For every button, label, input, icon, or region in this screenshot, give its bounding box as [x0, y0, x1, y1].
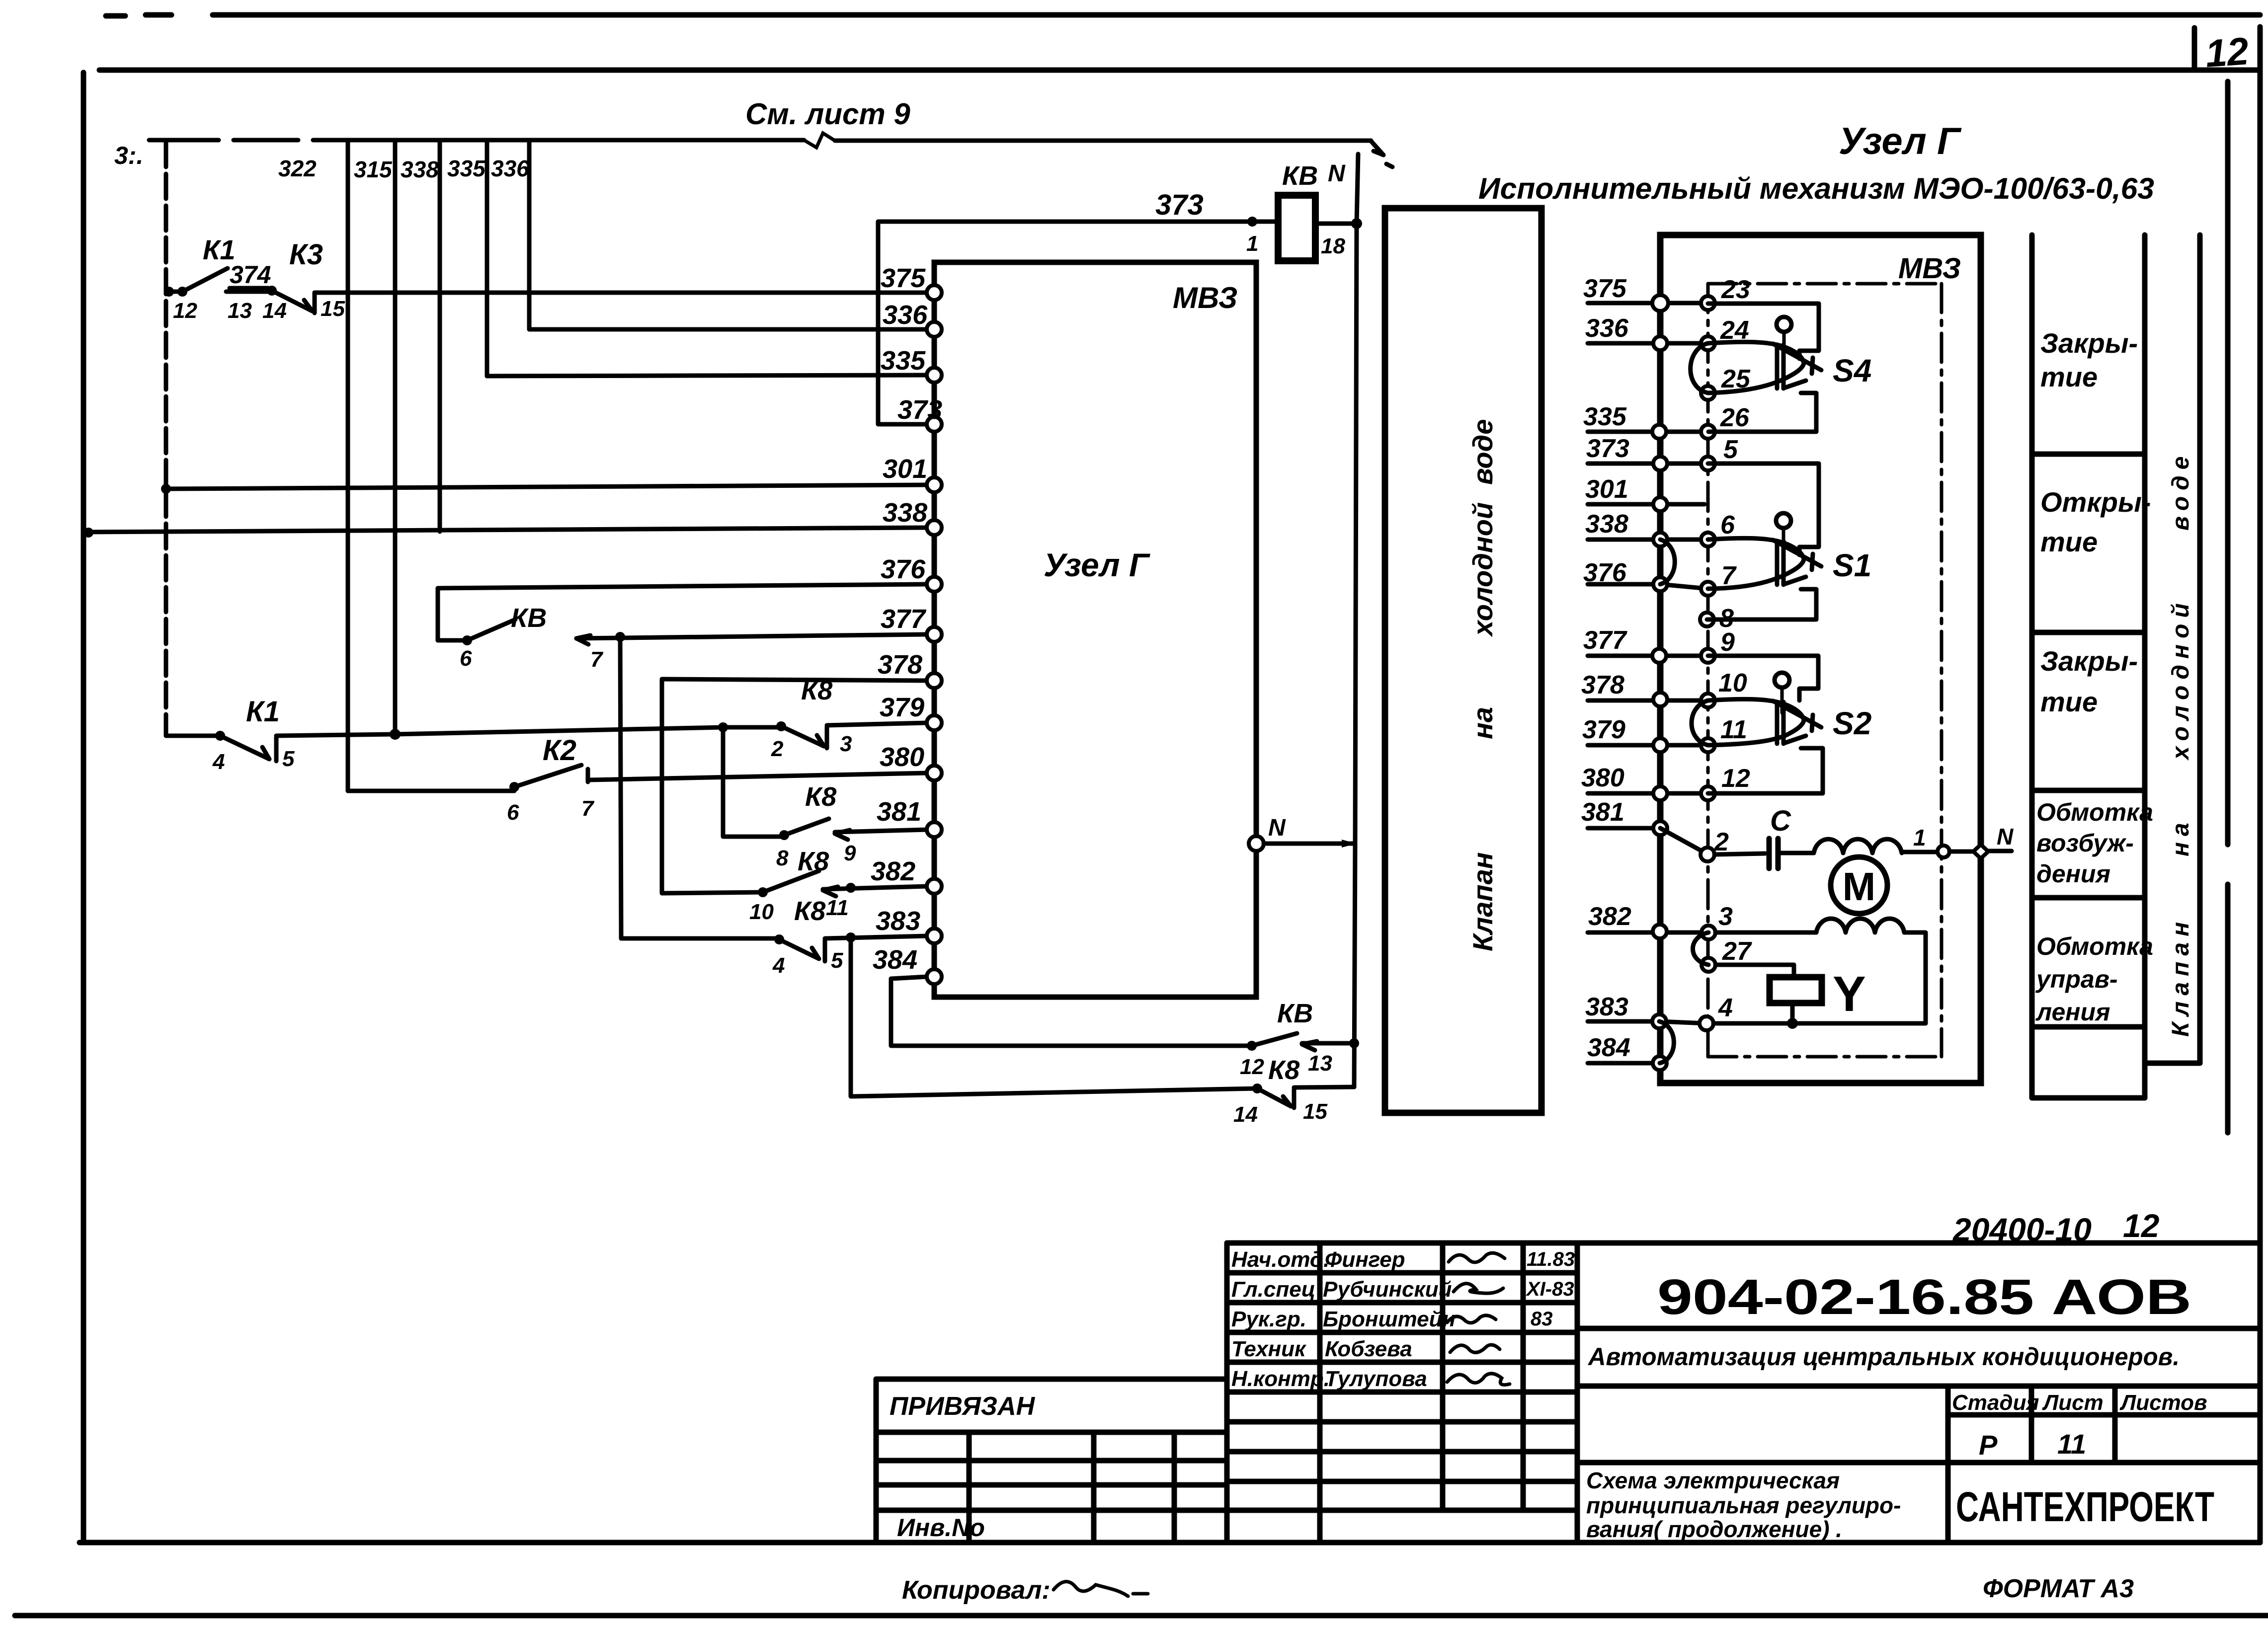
svg-text:338: 338: [401, 156, 439, 182]
box Uzel G inner: [934, 262, 1256, 997]
row 384: [1588, 1061, 1660, 1066]
arrow 9 side: [835, 830, 850, 840]
junction 13-N: [1349, 1038, 1359, 1048]
svg-text:на: на: [2168, 817, 2194, 856]
rotated column right edge: [2145, 235, 2200, 1063]
jumper 338-376 bulge: [1660, 540, 1675, 584]
svg-text:тие: тие: [2040, 526, 2098, 557]
svg-text:S2: S2: [1833, 705, 1871, 741]
terminal 380: [927, 766, 942, 780]
svg-text:15: 15: [1303, 1099, 1327, 1124]
svg-text:9: 9: [844, 841, 856, 865]
boundary line sheet 9: [149, 140, 1371, 141]
frame top main line: [99, 68, 2260, 73]
wire 377 with contact KV 6/7: [438, 638, 467, 643]
svg-text:336: 336: [491, 155, 529, 181]
line under code: [1577, 1326, 2260, 1331]
svg-text:Узел Г: Узел Г: [1044, 546, 1150, 583]
svg-text:Клапан: Клапан: [1467, 852, 1498, 951]
terminal 375: [927, 285, 942, 300]
svg-text:Рубчинский: Рубчинский: [1323, 1277, 1452, 1302]
terminal 381: [927, 822, 942, 837]
terminal N right: [1249, 836, 1264, 851]
cell line 2: [2032, 630, 2145, 635]
contact K3 14-15 arm: [272, 291, 315, 313]
svg-text:КВ: КВ: [511, 603, 547, 633]
svg-text:Стадия: Стадия: [1952, 1391, 2039, 1415]
S2 arm: [1773, 701, 1821, 731]
svg-text:12: 12: [1240, 1055, 1264, 1079]
contact KV 8-9 arm: [784, 819, 829, 835]
contact K1 4-5 arm: [220, 736, 276, 761]
row 381: [1588, 826, 1660, 831]
svg-text:376: 376: [1583, 558, 1627, 587]
svg-text:3: 3: [840, 732, 852, 756]
svg-text:380: 380: [880, 742, 924, 772]
svg-text:Закры-: Закры-: [2040, 327, 2138, 359]
jumper 24-25 bulge: [1691, 343, 1708, 393]
header table verticals: [1227, 1243, 1577, 1543]
S1 arm: [1773, 540, 1821, 570]
bus line 335: [485, 140, 489, 376]
svg-text:КВ: КВ: [1277, 999, 1313, 1028]
S1 lamp stem: [1782, 528, 1785, 552]
svg-text:Y: Y: [1833, 966, 1866, 1022]
svg-text:12: 12: [1721, 764, 1750, 793]
wire 380 to box: [588, 773, 927, 780]
node 1: [1938, 846, 1949, 857]
contact KV 4-5 arm: [779, 939, 825, 961]
svg-text:S4: S4: [1833, 353, 1871, 388]
svg-text:12: 12: [2204, 29, 2250, 76]
junction 383 crossing: [846, 932, 856, 942]
terminal 335: [927, 368, 942, 383]
svg-text:С: С: [1770, 805, 1791, 837]
svg-text:338: 338: [1585, 510, 1628, 539]
svg-text:15: 15: [321, 297, 345, 321]
svg-text:вания( продолжение) .: вания( продолжение) .: [1586, 1516, 1842, 1542]
svg-text:Схема электрическая: Схема электрическая: [1586, 1468, 1840, 1493]
Y stub to wire 4: [1790, 1003, 1795, 1023]
contact K1 12-13 arm: [182, 268, 228, 292]
wire 335: [487, 375, 927, 376]
svg-text:384: 384: [1587, 1033, 1630, 1062]
contact K2 6-7 arm: [514, 765, 588, 787]
wire row 375 with contacts K1 12/13 K3 14/15: [166, 290, 182, 294]
svg-text:Лист: Лист: [2042, 1391, 2104, 1415]
jumper 10-11 bulge: [1692, 700, 1708, 745]
svg-text:3:.: 3:.: [114, 142, 143, 169]
arrow 11 side: [823, 887, 838, 896]
svg-text:10: 10: [749, 900, 774, 924]
svg-text:См. лист 9: См. лист 9: [745, 97, 910, 131]
arrow 7 side: [576, 635, 590, 644]
terminal 383: [927, 929, 942, 943]
svg-text:4: 4: [212, 750, 225, 774]
svg-text:S1: S1: [1833, 547, 1871, 583]
svg-text:5: 5: [831, 948, 843, 973]
contact KV 12-13 arm: [1252, 1033, 1297, 1046]
S2 lamp: [1775, 673, 1789, 688]
svg-text:6: 6: [460, 646, 472, 671]
svg-text:380: 380: [1581, 764, 1624, 792]
row 382-3: [1588, 930, 1708, 935]
row 377-9: [1588, 654, 1708, 658]
terminal 301: [927, 477, 942, 492]
svg-text:378: 378: [1581, 671, 1624, 699]
svg-text:КВ: КВ: [1282, 161, 1318, 191]
svg-text:382: 382: [871, 856, 915, 886]
svg-text:холодной: холодной: [2168, 597, 2194, 761]
signature 4: [1450, 1345, 1500, 1352]
S2 bottom bracket: [1708, 748, 1823, 793]
capacitor C: [1769, 839, 1778, 868]
node 14 KV: [1252, 1083, 1262, 1093]
row 336-24: [1588, 341, 1708, 346]
privyazan box: [876, 1379, 1227, 1543]
svg-text:3: 3: [1718, 902, 1733, 931]
svg-text:САНТЕХПРОЕКТ: САНТЕХПРОЕКТ: [1956, 1483, 2214, 1530]
terminal 373: [927, 417, 942, 432]
node 8 KV: [779, 830, 789, 840]
svg-text:Обмотка: Обмотка: [2036, 798, 2153, 826]
svg-text:возбуж-: возбуж-: [2036, 829, 2134, 857]
svg-text:Фингер: Фингер: [1325, 1247, 1405, 1272]
svg-text:83: 83: [1531, 1308, 1553, 1330]
wire 379 to box: [827, 723, 927, 725]
svg-text:18: 18: [1321, 234, 1345, 258]
junction feeder-301: [161, 484, 171, 494]
node 14: [267, 286, 277, 296]
S2 bridge: [1777, 702, 1783, 744]
node 12 KV: [1247, 1041, 1257, 1051]
terminal 377: [927, 627, 942, 642]
svg-text:381: 381: [1581, 798, 1624, 827]
svg-text:Техник: Техник: [1231, 1337, 1307, 1361]
svg-text:Рук.гр.: Рук.гр.: [1231, 1307, 1306, 1331]
wire 374 segment: [226, 288, 272, 292]
node 4 KV: [774, 934, 784, 944]
wire 373 riser path: [878, 222, 1278, 424]
S4 lower mark: [1784, 381, 1806, 388]
svg-text:1: 1: [1246, 232, 1258, 256]
contact KV 2-3 arm: [781, 726, 827, 748]
limit switch S2 top bracket: [1708, 656, 1818, 700]
svg-text:МВЗ: МВЗ: [1898, 252, 1961, 285]
node 2 KV: [776, 721, 786, 731]
svg-text:335: 335: [881, 346, 926, 376]
svg-text:К8: К8: [805, 782, 836, 812]
svg-text:13: 13: [228, 299, 252, 323]
signature 2: [1454, 1284, 1503, 1294]
svg-text:воде: воде: [1467, 419, 1498, 485]
svg-text:373: 373: [1586, 434, 1629, 463]
bus line 338: [438, 140, 442, 532]
svg-text:315: 315: [354, 156, 393, 182]
node 10 KV: [758, 887, 768, 897]
terminal N diamond: [1973, 845, 1988, 858]
svg-text:14: 14: [262, 299, 287, 323]
svg-text:N: N: [1268, 815, 1286, 841]
row 373-5: [1588, 462, 1708, 466]
svg-text:8: 8: [776, 846, 789, 870]
junction N line: [1342, 840, 1357, 848]
row 25: [1701, 386, 1715, 400]
svg-text:383: 383: [1585, 993, 1628, 1021]
terminal 378: [927, 673, 942, 688]
svg-text:N: N: [1328, 160, 1346, 187]
svg-text:376: 376: [881, 554, 926, 584]
svg-text:воде: воде: [2168, 451, 2194, 531]
privyazan columns: [969, 1432, 1174, 1543]
svg-text:384: 384: [873, 945, 917, 975]
svg-text:11: 11: [1720, 715, 1747, 744]
wire 27 to Y: [1715, 965, 1794, 977]
wire 379 row with K1 4/5 and KV 2/3: [166, 734, 220, 738]
row 383-4: [1588, 1021, 1706, 1023]
N vertical line: [1354, 154, 1358, 1087]
svg-text:374: 374: [230, 261, 271, 289]
dashed feeder line 314: [164, 142, 168, 736]
S2 body blob: [1708, 699, 1804, 745]
row 335-26: [1588, 430, 1708, 434]
title block main outline: [1227, 1240, 2260, 1246]
branch 377 down to KV 4/5: [620, 637, 621, 938]
svg-text:Р: Р: [1979, 1429, 1998, 1461]
wire cap to coil: [1778, 851, 1814, 855]
signature 1: [1449, 1253, 1505, 1262]
cell line 4: [2032, 895, 2145, 901]
svg-text:377: 377: [1583, 626, 1627, 655]
wire 377 continue: [576, 634, 927, 638]
wire coil to N: [1315, 222, 1357, 226]
svg-text:6: 6: [1720, 511, 1735, 540]
box MVZ right: [1660, 235, 1981, 1083]
svg-text:ПРИВЯЗАН: ПРИВЯЗАН: [890, 1392, 1036, 1421]
row 338-6: [1588, 538, 1708, 542]
svg-text:Обмотка: Обмотка: [2036, 932, 2153, 960]
contact KV 10-11 arm: [763, 871, 819, 892]
svg-text:Листов: Листов: [2119, 1391, 2207, 1415]
node 12: [177, 287, 187, 297]
row 27: [1701, 958, 1715, 972]
frame top broken line: [106, 15, 2260, 16]
svg-text:11: 11: [826, 896, 849, 920]
cell line 1: [2032, 452, 2145, 457]
wire 13 to N: [1302, 1041, 1354, 1046]
line under stage row: [1577, 1460, 2260, 1466]
control winding coil: [1816, 919, 1904, 932]
wire coil to node 1: [1902, 850, 1938, 854]
bus line 322: [346, 140, 350, 791]
diagonal 381 to 2: [1660, 828, 1704, 852]
wire N terminal to N line: [1264, 842, 1355, 846]
svg-text:XI-83: XI-83: [1526, 1278, 1574, 1300]
junction before KV coil: [1247, 217, 1257, 227]
wire 380 row K2 6/7: [348, 789, 514, 793]
node 6 KV: [462, 635, 472, 645]
junction branch 8/9: [718, 722, 728, 732]
svg-text:К2: К2: [543, 734, 576, 767]
svg-text:6: 6: [507, 800, 519, 825]
valve tall box: [1385, 208, 1541, 1113]
terminal 338: [927, 520, 942, 535]
svg-text:принципиальная регулиро-: принципиальная регулиро-: [1586, 1492, 1901, 1518]
contact KV 14-15 arm: [1257, 1088, 1294, 1108]
svg-text:375: 375: [881, 263, 926, 293]
row 376-7: [1588, 584, 1708, 589]
junction coil-N: [1351, 218, 1362, 229]
arrow 13 side: [1302, 1041, 1317, 1050]
svg-text:ФОРМАТ А3: ФОРМАТ А3: [1983, 1574, 2134, 1603]
svg-text:Закры-: Закры-: [2040, 645, 2138, 677]
svg-text:375: 375: [1583, 274, 1627, 303]
svg-text:5: 5: [1723, 435, 1738, 464]
svg-text:тие: тие: [2040, 361, 2098, 392]
svg-text:Инв.No: Инв.No: [897, 1514, 985, 1542]
svg-text:13: 13: [1308, 1051, 1332, 1076]
svg-text:ления: ления: [2035, 998, 2110, 1026]
row 380-12: [1588, 791, 1708, 796]
wire coil down to 4: [1904, 932, 1926, 1023]
dash-dot box left edge: [1706, 284, 1710, 1057]
svg-text:335: 335: [1583, 402, 1627, 431]
svg-text:Откры-: Откры-: [2040, 486, 2151, 518]
sheet edge bottom line: [15, 1613, 2268, 1619]
frame left border: [81, 73, 86, 1543]
svg-text:2: 2: [771, 737, 784, 761]
svg-text:7: 7: [581, 796, 595, 821]
svg-text:373: 373: [897, 395, 942, 425]
junction 377 branch: [615, 632, 625, 642]
motor M circle: [1831, 857, 1887, 914]
svg-text:Тулупова: Тулупова: [1325, 1367, 1427, 1391]
svg-text:4: 4: [1718, 994, 1733, 1022]
wire N stub: [1988, 849, 2012, 853]
wire 2 to capacitor: [1714, 853, 1765, 854]
junction frame-338: [83, 528, 93, 538]
wire 15 to N: [1294, 1087, 1354, 1087]
svg-text:N: N: [1997, 824, 2014, 850]
relay coil KV: [1278, 195, 1315, 261]
row 378-10: [1588, 698, 1708, 703]
S2 lower mark: [1784, 736, 1806, 743]
wire 378 loop: [662, 679, 927, 893]
row 375-23: [1588, 301, 1708, 306]
svg-text:Н.контр.: Н.контр.: [1231, 1367, 1330, 1391]
boundary end arrow: [1371, 141, 1392, 167]
svg-text:382: 382: [1588, 902, 1631, 931]
dash-dot box bottom edge: [1708, 1055, 1942, 1059]
svg-text:К8: К8: [1268, 1055, 1299, 1085]
header table rows: [1227, 1273, 1577, 1510]
frame bottom border: [80, 1540, 2260, 1546]
row 301: [1588, 502, 1704, 507]
svg-text:379: 379: [880, 693, 924, 722]
svg-text:11: 11: [2057, 1428, 2086, 1460]
svg-text:5: 5: [282, 747, 295, 771]
contact KV 6-7 arm: [467, 619, 515, 640]
cell line 5: [2032, 1024, 2145, 1030]
svg-text:904-02-16.85 АОВ: 904-02-16.85 АОВ: [1657, 1269, 2191, 1325]
svg-text:Кобзева: Кобзева: [1325, 1337, 1412, 1361]
kopiroval signature: [1053, 1582, 1148, 1596]
inner margin line right: [2225, 81, 2231, 1133]
svg-text:14: 14: [1233, 1102, 1258, 1127]
bus line 315: [393, 140, 398, 734]
node 6 K2: [509, 782, 519, 792]
svg-text:301: 301: [1585, 475, 1628, 504]
wire 3 to control coil: [1715, 930, 1816, 935]
S1 bottom bracket: [1707, 589, 1816, 619]
svg-text:холодной: холодной: [1467, 502, 1498, 637]
relay Y box: [1770, 977, 1822, 1003]
bottom wire to KV 14/15: [851, 937, 1257, 1096]
jumper 3-27 bulge: [1693, 932, 1709, 965]
svg-text:373: 373: [1155, 189, 1204, 221]
svg-text:К8: К8: [801, 676, 832, 705]
wire 383 row KV 4/5: [621, 936, 779, 941]
function label column box: [2032, 235, 2145, 1098]
wire to junction 315: [276, 727, 723, 736]
svg-text:M: M: [1843, 864, 1876, 909]
svg-text:379: 379: [1582, 715, 1625, 744]
svg-text:Гл.спец: Гл.спец: [1231, 1277, 1315, 1302]
S4 bottom bracket: [1708, 393, 1816, 432]
dash-dot box top edge: [1708, 282, 1942, 286]
signature 3: [1447, 1315, 1496, 1323]
svg-text:27: 27: [1722, 937, 1752, 966]
node 2: [1701, 848, 1714, 861]
terminal 336: [927, 322, 942, 337]
wire 381: [835, 830, 927, 832]
S1 bridge: [1777, 541, 1783, 585]
svg-text:377: 377: [881, 604, 927, 634]
wire 338 from frame: [83, 528, 927, 532]
svg-text:К1: К1: [246, 696, 280, 728]
wire node1 to N: [1949, 850, 1975, 854]
boundary break mark: [804, 133, 835, 148]
terminal 384: [927, 969, 942, 984]
svg-text:335: 335: [447, 155, 486, 181]
svg-text:тие: тие: [2040, 686, 2098, 717]
svg-text:МВЗ: МВЗ: [1173, 281, 1237, 314]
limit switch S1 top bracket: [1708, 464, 1819, 555]
row 379-11: [1588, 743, 1708, 748]
svg-text:381: 381: [877, 797, 921, 827]
svg-text:Исполнительный механизм МЭО-1: Исполнительный механизм МЭО-100/63-0,63: [1478, 172, 2154, 205]
wire 383 to box: [825, 936, 927, 938]
terminal 376: [927, 577, 942, 592]
stage table verticals: [1948, 1386, 2115, 1543]
svg-text:К3: К3: [289, 238, 323, 271]
svg-text:383: 383: [876, 906, 920, 936]
dash-dot box right edge: [1940, 284, 1944, 1057]
S4 lamp: [1777, 317, 1791, 332]
terminal 379: [927, 715, 942, 730]
S4 bridge: [1777, 345, 1783, 388]
wire 4 row: [1713, 1021, 1926, 1026]
bus line 336: [527, 140, 532, 329]
wire 336: [529, 327, 927, 332]
jumper 383-384 bulge: [1659, 1021, 1674, 1063]
svg-text:336: 336: [1585, 314, 1629, 343]
svg-text:4: 4: [772, 953, 785, 978]
S4 arm: [1773, 344, 1821, 374]
wire 301: [164, 485, 927, 489]
svg-text:Нач.отд.: Нач.отд.: [1231, 1247, 1329, 1272]
junction 315-wire: [390, 729, 401, 740]
